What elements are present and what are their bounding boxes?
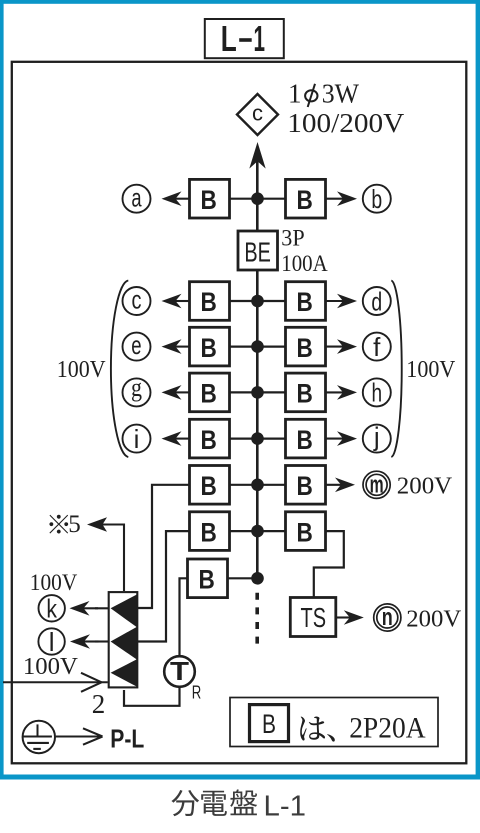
- svg-text:100V: 100V: [23, 654, 79, 680]
- svg-text:3W: 3W: [322, 78, 360, 108]
- wire row i/j: [230, 438, 286, 440]
- transformer Tr: [164, 656, 201, 703]
- svg-text:d: d: [371, 286, 382, 316]
- wire single breaker to transformer: [180, 578, 190, 656]
- svg-text:f: f: [373, 332, 381, 362]
- svg-text:m: m: [370, 471, 384, 498]
- svg-text:100V: 100V: [30, 570, 78, 595]
- svg-text:B: B: [297, 425, 313, 455]
- svg-text:B: B: [201, 287, 217, 317]
- bracket right: [391, 281, 401, 458]
- breaker B (e): [190, 327, 230, 366]
- svg-text:B: B: [297, 379, 313, 409]
- panel frame: [12, 62, 467, 764]
- node h: [363, 378, 391, 408]
- source node c (diamond): [237, 94, 278, 135]
- svg-text:2: 2: [92, 689, 106, 719]
- breaker B (a): [190, 179, 230, 218]
- svg-text:B: B: [199, 565, 215, 595]
- bracket left: [111, 281, 128, 458]
- wire row m: [230, 484, 286, 486]
- svg-text:200V: 200V: [406, 606, 462, 632]
- svg-text:l: l: [49, 627, 55, 657]
- svg-text:g: g: [131, 373, 142, 402]
- node e: [123, 330, 151, 360]
- node c: [123, 285, 151, 315]
- wire ref-5 arrow: [87, 517, 124, 591]
- svg-text:B: B: [262, 709, 276, 739]
- svg-text:j: j: [373, 421, 380, 451]
- wire arrow-l to block: [95, 640, 108, 642]
- ground electrode P-L: [23, 721, 55, 753]
- svg-text:h: h: [372, 378, 383, 408]
- svg-text:B: B: [201, 517, 217, 547]
- svg-text:B: B: [201, 333, 217, 363]
- svg-text:a: a: [131, 182, 142, 212]
- svg-text:B: B: [297, 517, 313, 547]
- arrow to n: [336, 610, 364, 625]
- bus dashed continuation: [255, 593, 259, 645]
- arrow to j: [326, 431, 358, 446]
- wire row c/d: [230, 300, 286, 302]
- junction row g/h: [251, 386, 264, 399]
- wire arrow-k to block: [95, 607, 108, 609]
- svg-text:B: B: [297, 185, 313, 215]
- arrow to g: [162, 385, 191, 400]
- junction row c/d: [251, 295, 264, 308]
- svg-text:k: k: [46, 594, 57, 624]
- junction row m: [251, 479, 264, 492]
- breaker B (i): [190, 419, 230, 458]
- svg-text:B: B: [297, 333, 313, 363]
- legend box: [230, 698, 438, 747]
- title box L-1: [205, 18, 284, 59]
- arrow to m: [326, 478, 356, 493]
- wire row 2: [230, 530, 286, 532]
- caption 分電盤 L-1: [172, 789, 307, 822]
- node l: [38, 627, 64, 657]
- svg-text:R: R: [192, 682, 202, 702]
- svg-text:L: L: [221, 18, 237, 59]
- node d: [363, 286, 391, 316]
- svg-text:TS: TS: [301, 602, 327, 633]
- breaker B (row 2 right): [286, 512, 326, 551]
- node g: [123, 373, 151, 406]
- svg-text:100V: 100V: [57, 357, 106, 383]
- arrow to d: [326, 294, 358, 309]
- node m: [363, 471, 390, 498]
- breaker B (d): [286, 282, 326, 321]
- junction row e/f: [251, 340, 264, 353]
- arrow to h: [326, 385, 358, 400]
- junction row 2: [251, 525, 264, 538]
- svg-text:100A: 100A: [281, 251, 328, 276]
- svg-text:P-L: P-L: [110, 724, 144, 754]
- wire row2-right breaker to TS: [314, 531, 344, 597]
- arrow to k: [70, 601, 99, 616]
- arrow to i: [162, 431, 191, 446]
- junction single breaker row: [251, 572, 264, 585]
- wire single breaker to bus: [228, 577, 258, 579]
- breaker B (row 2 left): [190, 512, 230, 551]
- wire transformer to terminal block bottom: [124, 687, 180, 706]
- breaker B (g): [190, 373, 230, 412]
- breaker B (j): [286, 419, 326, 458]
- bus arrow up: [249, 142, 265, 169]
- svg-text:T: T: [170, 656, 189, 686]
- wire m-left breaker to terminal block: [138, 485, 190, 608]
- breaker B (b): [286, 179, 326, 218]
- breaker B (c): [190, 282, 230, 321]
- svg-text:3P: 3P: [281, 226, 304, 251]
- node j: [363, 421, 391, 452]
- arrow to f: [326, 339, 358, 354]
- breaker B (single): [188, 559, 228, 598]
- svg-text:200V: 200V: [397, 474, 453, 500]
- junction row a/b: [251, 192, 264, 205]
- breaker B (f): [286, 327, 326, 366]
- node k: [39, 594, 65, 624]
- node b: [363, 184, 391, 214]
- wire ground to P-L: [56, 728, 103, 744]
- label *5: [49, 511, 80, 538]
- svg-text:B: B: [297, 471, 313, 501]
- svg-text:5: 5: [68, 511, 81, 538]
- svg-text:B: B: [201, 379, 217, 409]
- wire row a/b: [230, 198, 286, 200]
- wire row2-left breaker to terminal block: [138, 531, 190, 641]
- main bus: [256, 147, 259, 578]
- main breaker BE: [238, 231, 278, 270]
- node f: [363, 332, 391, 362]
- wire row g/h: [230, 391, 286, 393]
- timer switch TS: [290, 598, 336, 637]
- svg-text:1: 1: [288, 78, 302, 108]
- breaker B (m row right): [286, 466, 326, 505]
- breaker B (m row left): [190, 466, 230, 505]
- svg-text:c: c: [132, 285, 142, 315]
- svg-text:B: B: [201, 185, 217, 215]
- svg-text:b: b: [371, 184, 382, 214]
- svg-text:B: B: [297, 287, 313, 317]
- svg-text:e: e: [131, 330, 141, 360]
- junction row i/j: [251, 432, 264, 445]
- svg-text:i: i: [134, 424, 140, 454]
- svg-text:2P20A: 2P20A: [349, 712, 426, 745]
- terminal block: [109, 592, 138, 687]
- svg-text:1: 1: [254, 18, 266, 59]
- arrow to c: [162, 294, 191, 309]
- svg-text:BE: BE: [244, 236, 271, 267]
- arrow to l: [70, 634, 99, 649]
- arrow to a: [162, 191, 191, 206]
- svg-text:L-1: L-1: [264, 790, 307, 822]
- svg-text:B: B: [201, 425, 217, 455]
- node n: [374, 604, 401, 631]
- incoming 100V feeder arrow: [3, 673, 108, 692]
- node i: [123, 424, 151, 454]
- svg-text:B: B: [201, 471, 217, 501]
- svg-text:c: c: [252, 100, 263, 125]
- wire row e/f: [230, 346, 286, 348]
- svg-text:100/200V: 100/200V: [287, 108, 405, 138]
- breaker B (h): [286, 373, 326, 412]
- arrow to b: [326, 191, 358, 206]
- label 1phi3W: [288, 78, 359, 108]
- node a: [123, 182, 151, 212]
- svg-text:100V: 100V: [406, 357, 456, 383]
- svg-text:n: n: [382, 604, 393, 631]
- arrow to e: [162, 339, 191, 354]
